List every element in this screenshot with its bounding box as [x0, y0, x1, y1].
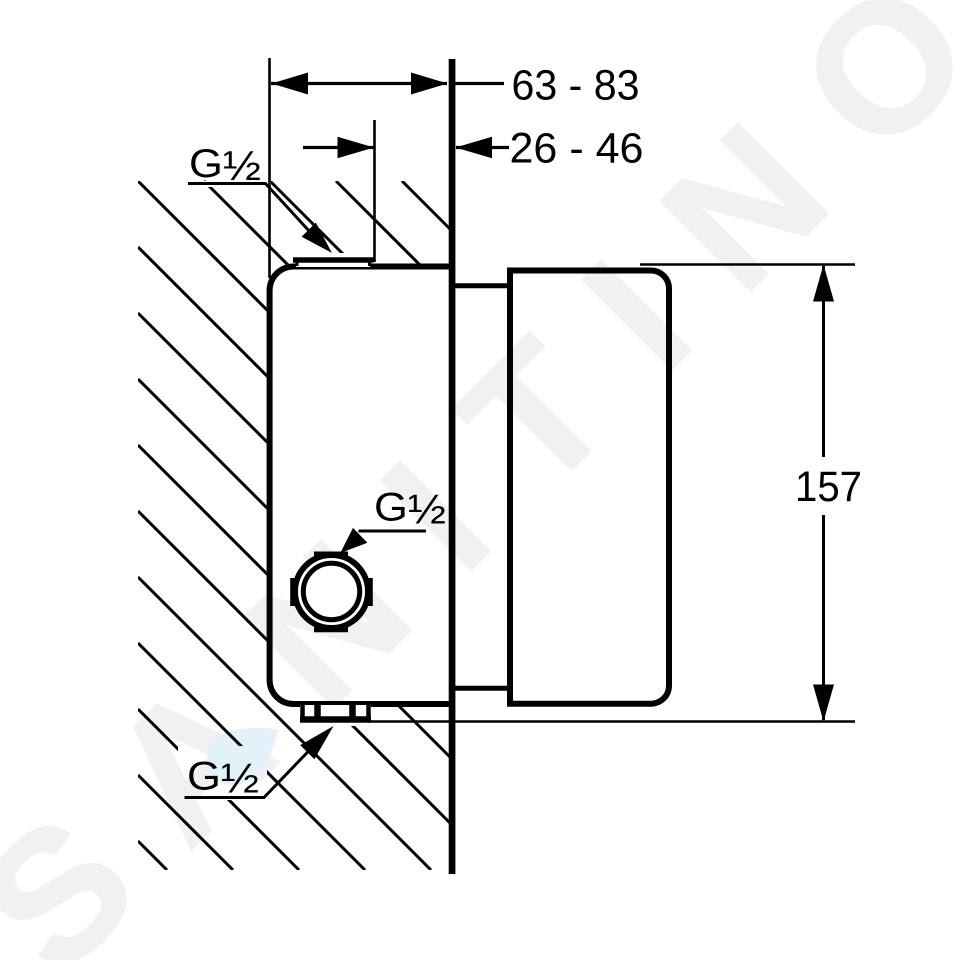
dim 26-46 line: [303, 146, 374, 149]
dim 157 line top segment: [822, 266, 825, 457]
label underline middle: [359, 530, 427, 533]
ext line 157 bottom: [368, 720, 855, 723]
svg-text:G½: G½: [187, 755, 259, 802]
leader arrow bottom: [300, 726, 333, 759]
dim 157 line bottom segment: [822, 515, 825, 720]
leader arrow middle: [340, 528, 367, 553]
dim 157 down arrow: [813, 685, 834, 722]
svg-text:63 - 83: 63 - 83: [512, 62, 640, 110]
leader top: [266, 184, 323, 246]
leader bottom: [264, 734, 325, 798]
watermark droplet: [207, 728, 278, 785]
dim 26-46 right-pointing arrow: [338, 137, 375, 159]
side port flange flats: [293, 554, 371, 630]
escutcheon / trim (right of wall): [510, 271, 669, 704]
svg-text:G½: G½: [189, 142, 261, 189]
dim 157 up arrow: [813, 265, 834, 302]
valve body (left, in-wall): [270, 267, 455, 705]
svg-text:26 - 46: 26 - 46: [510, 125, 644, 173]
step connector top: [452, 283, 508, 288]
side port G1/2 outer ring: [295, 555, 368, 628]
ext line 157 top: [640, 263, 855, 266]
svg-text:G½: G½: [374, 486, 446, 533]
dim 63-83 line: [271, 82, 447, 85]
extension line left (body face): [268, 58, 271, 278]
wall face line: [449, 59, 456, 874]
label underline bottom: [185, 796, 266, 799]
svg-text:157: 157: [795, 463, 862, 511]
dim 63-83 right arrow: [411, 73, 448, 95]
extension line flange axis: [373, 120, 376, 262]
dim 63-83 left arrow: [272, 73, 309, 95]
step connector bottom: [452, 686, 508, 691]
dim 26-46 left-pointing arrow: [456, 137, 493, 159]
bottom nipple G1/2 outlet: [300, 705, 371, 721]
top flange G1/2 inlet: [293, 260, 374, 267]
leader arrow top: [302, 223, 332, 253]
side port inner ring: [303, 563, 359, 619]
label underline top: [188, 182, 267, 185]
